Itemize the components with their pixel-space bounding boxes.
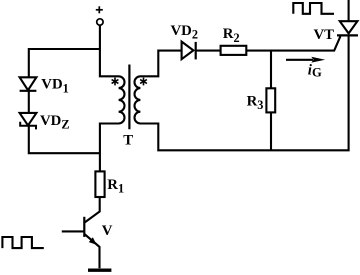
svg-text:VDZ: VDZ [40, 113, 70, 132]
svg-text:VD2: VD2 [171, 23, 199, 42]
svg-text:V: V [102, 223, 113, 239]
svg-text:T: T [123, 133, 133, 149]
svg-text:R1: R1 [107, 177, 124, 196]
svg-text:VT: VT [314, 27, 335, 43]
svg-text:R3: R3 [247, 94, 264, 113]
svg-text:R2: R2 [223, 26, 240, 45]
svg-text:iG: iG [308, 62, 322, 79]
svg-text:VD1: VD1 [41, 77, 69, 96]
